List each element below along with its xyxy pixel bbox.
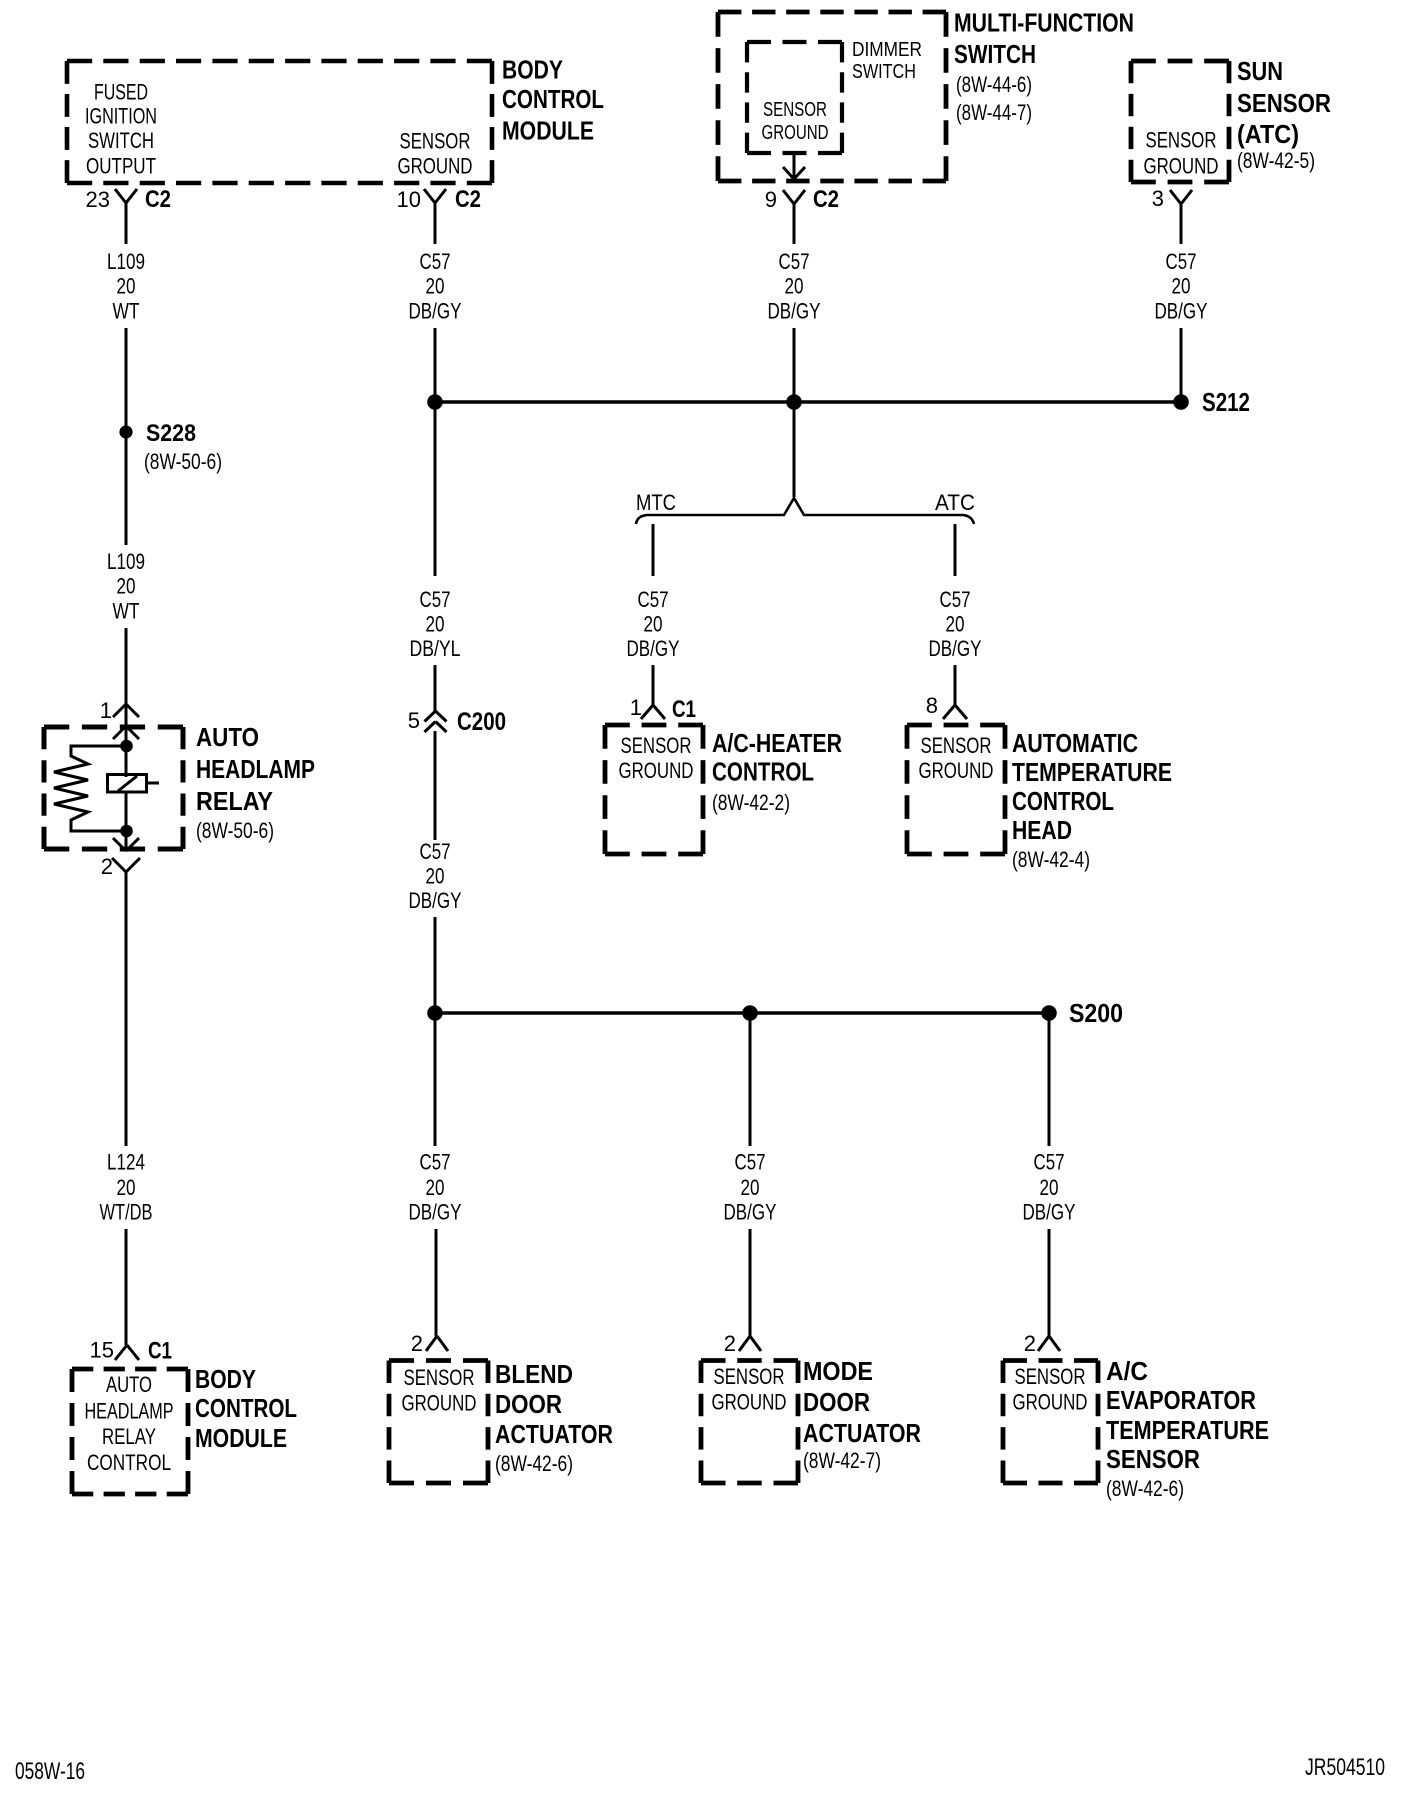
svg-text:TEMPERATURE: TEMPERATURE — [1012, 757, 1172, 787]
svg-text:CONTROL: CONTROL — [502, 84, 604, 114]
in-line connector C200 pin 5 — [408, 708, 506, 736]
svg-text:(8W-42-6): (8W-42-6) — [1106, 1476, 1184, 1501]
svg-text:DB/GY: DB/GY — [1155, 299, 1208, 324]
wire C57 segment (label to S200 bus) — [434, 917, 437, 1013]
svg-text:MODE: MODE — [803, 1356, 873, 1386]
label BODY CONTROL MODULE (bottom) — [195, 1364, 297, 1453]
svg-text:15: 15 — [90, 1338, 114, 1363]
svg-text:SENSOR: SENSOR — [404, 1365, 475, 1390]
relay pin 1 connector — [100, 698, 139, 739]
svg-text:SWITCH: SWITCH — [954, 39, 1036, 69]
svg-text:MULTI-FUNCTION: MULTI-FUNCTION — [954, 8, 1134, 38]
svg-text:JR504510: JR504510 — [1305, 1754, 1385, 1781]
svg-text:20: 20 — [117, 574, 136, 599]
sheet number 058W-16 — [15, 1758, 85, 1785]
wire C57 segment (label to A/C-heater control) — [652, 665, 655, 705]
svg-text:1: 1 — [630, 695, 642, 720]
svg-text:BODY: BODY — [502, 55, 563, 85]
svg-text:8: 8 — [926, 693, 938, 718]
label SENSOR GROUND (mode door actuator) — [712, 1364, 787, 1415]
svg-text:AUTO: AUTO — [196, 722, 259, 752]
connector C1 pin 15 (BCM) — [90, 1338, 172, 1365]
dimmer switch inner dashed box — [747, 42, 842, 153]
wire label C57 20 DB/GY (evap) — [1023, 1150, 1076, 1225]
svg-text:SENSOR: SENSOR — [1015, 1364, 1086, 1389]
junction node S212-left — [427, 394, 443, 410]
wire L109 segment (C2 pin23 to label) — [125, 203, 128, 244]
label A/C-HEATER CONTROL — [712, 728, 842, 815]
svg-text:(8W-42-5): (8W-42-5) — [1237, 148, 1315, 173]
svg-text:20: 20 — [741, 1175, 760, 1200]
wire C57 segment (S200 to mode label) — [749, 1013, 752, 1146]
automatic temperature control head dashed box — [907, 725, 1005, 854]
wire label C57 20 DB/GY (MTC branch) — [627, 587, 680, 661]
svg-text:DB/GY: DB/GY — [409, 299, 462, 324]
svg-text:10: 10 — [397, 187, 421, 212]
junction node S200-mid — [742, 1005, 758, 1021]
svg-text:5: 5 — [408, 708, 420, 733]
wire C57 segment (brace ATC to label) — [954, 524, 957, 576]
svg-text:DB/GY: DB/GY — [929, 636, 982, 661]
label AUTO HEADLAMP RELAY — [196, 722, 315, 843]
connector pin 2 (blend door actuator) — [411, 1331, 448, 1356]
connector C2 pin 10 (BCM) — [397, 186, 481, 213]
arrow dimmer switch to pin (internal) — [783, 153, 805, 179]
svg-text:ACTUATOR: ACTUATOR — [495, 1419, 613, 1449]
svg-text:DB/GY: DB/GY — [724, 1200, 777, 1225]
label AUTOMATIC TEMPERATURE CONTROL HEAD — [1012, 728, 1172, 872]
wire label C57 20 DB/GY (blend) — [409, 1150, 462, 1225]
svg-text:DB/YL: DB/YL — [410, 636, 461, 661]
label DIMMER SWITCH — [852, 39, 922, 83]
connector C2 pin 9 (multi-function switch) — [765, 186, 839, 213]
wire C57 segment (brace MTC to label) — [652, 524, 655, 576]
svg-text:C57: C57 — [940, 587, 971, 612]
svg-text:GROUND: GROUND — [619, 758, 694, 783]
svg-text:SENSOR: SENSOR — [1106, 1444, 1200, 1474]
wire label C57 20 DB/GY (col3) — [768, 249, 821, 324]
svg-text:C57: C57 — [1034, 1150, 1065, 1175]
wire relay internal (pin1 to coil) — [125, 704, 128, 777]
connector pin 8 (ATC head) — [926, 693, 967, 719]
svg-text:CONTROL: CONTROL — [712, 757, 814, 787]
svg-text:DB/GY: DB/GY — [1023, 1200, 1076, 1225]
svg-text:L109: L109 — [107, 549, 145, 574]
auto headlamp relay dashed box K-AHR — [44, 727, 183, 849]
svg-text:C2: C2 — [813, 186, 839, 213]
wire L109 segment (S228 to label) — [125, 432, 128, 545]
svg-text:3: 3 — [1152, 186, 1164, 211]
svg-text:DOOR: DOOR — [803, 1387, 870, 1417]
wire L124 segment (relay pin2 to label) — [125, 872, 128, 1146]
svg-text:DB/GY: DB/GY — [627, 636, 680, 661]
wire label L124 20 WT/DB — [100, 1150, 153, 1225]
label SENSOR GROUND (ATC head) — [919, 733, 994, 783]
wire C57 segment (label to blend actuator) — [435, 1229, 438, 1336]
svg-text:2: 2 — [101, 854, 113, 879]
svg-text:CONTROL: CONTROL — [87, 1450, 171, 1475]
svg-text:C57: C57 — [420, 1150, 451, 1175]
wire C57 segment (C2 pin10 to label) — [434, 203, 437, 244]
svg-text:C57: C57 — [1166, 249, 1197, 274]
wire label C57 20 DB/YL — [410, 587, 461, 661]
svg-text:20: 20 — [117, 274, 136, 299]
svg-text:23: 23 — [86, 187, 110, 212]
blend door actuator dashed box — [389, 1361, 488, 1484]
svg-text:MODULE: MODULE — [195, 1423, 287, 1453]
svg-text:ATC: ATC — [935, 490, 975, 515]
sun sensor dashed box — [1131, 61, 1229, 182]
resistor (relay coil suppression) — [54, 746, 126, 831]
svg-text:SENSOR: SENSOR — [714, 1364, 785, 1389]
label ATC — [935, 490, 975, 515]
connector pin 3 (sun sensor) — [1152, 186, 1192, 211]
label BLEND DOOR ACTUATOR — [495, 1359, 613, 1476]
a/c-heater control dashed box — [605, 725, 703, 854]
svg-text:WT: WT — [113, 599, 140, 624]
svg-text:TEMPERATURE: TEMPERATURE — [1106, 1415, 1269, 1445]
svg-text:1: 1 — [100, 698, 112, 723]
svg-text:FUSED: FUSED — [94, 80, 148, 105]
svg-text:L109: L109 — [107, 249, 145, 274]
label SENSOR GROUND (a/c-heater control) — [619, 733, 694, 783]
label BODY CONTROL MODULE (top) — [502, 55, 604, 146]
brace MTC/ATC selector — [636, 498, 974, 524]
label FUSED IGNITION SWITCH OUTPUT (BCM pin function) — [85, 80, 157, 179]
svg-text:C1: C1 — [672, 696, 696, 723]
svg-text:(8W-50-6): (8W-50-6) — [144, 449, 222, 474]
multi-function switch outer dashed box — [718, 12, 946, 181]
label SENSOR GROUND (evap sensor) — [1013, 1364, 1088, 1415]
svg-text:S212: S212 — [1202, 387, 1250, 417]
svg-text:(8W-42-2): (8W-42-2) — [712, 790, 790, 815]
svg-text:MODULE: MODULE — [502, 116, 594, 146]
wire C57 segment (label to S212 bus) — [793, 328, 796, 402]
svg-text:GROUND: GROUND — [712, 1390, 787, 1415]
svg-text:WT/DB: WT/DB — [100, 1200, 153, 1225]
splice bus S200 — [435, 1011, 1049, 1014]
svg-text:HEADLAMP: HEADLAMP — [196, 754, 315, 784]
mode door actuator dashed box — [701, 1361, 798, 1484]
wire C57 segment (sun sensor to label) — [1180, 204, 1183, 244]
svg-text:DB/GY: DB/GY — [768, 299, 821, 324]
svg-text:C57: C57 — [420, 249, 451, 274]
label MULTI-FUNCTION SWITCH — [954, 8, 1134, 126]
svg-text:GROUND: GROUND — [762, 122, 829, 144]
svg-text:GROUND: GROUND — [398, 153, 473, 178]
svg-text:SWITCH: SWITCH — [88, 128, 154, 153]
svg-text:20: 20 — [946, 612, 965, 637]
svg-text:GROUND: GROUND — [1013, 1390, 1088, 1415]
svg-text:2: 2 — [724, 1331, 736, 1356]
label SENSOR GROUND (sun sensor) — [1144, 128, 1219, 179]
svg-text:2: 2 — [1024, 1331, 1036, 1356]
drawing number JR504510 — [1305, 1754, 1385, 1781]
svg-text:20: 20 — [117, 1175, 136, 1200]
svg-text:SENSOR: SENSOR — [921, 733, 992, 758]
wire label C57 20 DB/GY (col2 upper) — [409, 249, 462, 324]
wire L109 segment (label to relay pin 1) — [125, 628, 128, 704]
svg-text:20: 20 — [785, 274, 804, 299]
svg-text:SENSOR: SENSOR — [763, 99, 827, 121]
svg-text:GROUND: GROUND — [1144, 154, 1219, 179]
connector C1 pin 1 (A/C-heater control) — [630, 695, 696, 723]
svg-text:(8W-50-6): (8W-50-6) — [196, 818, 274, 843]
svg-text:GROUND: GROUND — [919, 758, 994, 783]
relay pin 2 connector — [101, 838, 140, 879]
svg-text:MTC: MTC — [636, 490, 676, 515]
svg-text:SWITCH: SWITCH — [852, 61, 916, 83]
svg-text:SENSOR: SENSOR — [1146, 128, 1217, 153]
wire label C57 20 DB/GY (col2 mid) — [409, 839, 462, 913]
wire label C57 20 DB/GY (mode) — [724, 1150, 777, 1225]
label MTC — [636, 490, 676, 515]
junction node S212-mid — [786, 394, 802, 410]
wire C57 segment (label to ATC head) — [954, 665, 957, 705]
svg-text:WT: WT — [113, 299, 140, 324]
svg-text:C57: C57 — [420, 587, 451, 612]
wire L124 segment (label to C1 pin15) — [125, 1229, 128, 1345]
svg-text:C57: C57 — [735, 1150, 766, 1175]
svg-text:20: 20 — [1172, 274, 1191, 299]
svg-text:C57: C57 — [779, 249, 810, 274]
svg-text:A/C: A/C — [1106, 1356, 1148, 1386]
svg-text:(ATC): (ATC) — [1237, 119, 1299, 149]
svg-text:BLEND: BLEND — [495, 1359, 573, 1389]
svg-text:(8W-42-6): (8W-42-6) — [495, 1451, 573, 1476]
wire label L109 20 WT (lower) — [107, 549, 145, 624]
svg-text:SUN: SUN — [1237, 56, 1283, 86]
svg-text:BODY: BODY — [195, 1364, 256, 1394]
svg-text:CONTROL: CONTROL — [1012, 786, 1114, 816]
svg-text:IGNITION: IGNITION — [85, 104, 157, 129]
wire C57 segment (S212 to DB/YL label) — [434, 402, 437, 576]
wire label L109 20 WT (upper) — [107, 249, 145, 324]
svg-text:C2: C2 — [455, 186, 481, 213]
connector pin 2 (a/c evaporator temperature sensor) — [1024, 1331, 1060, 1356]
svg-text:SENSOR: SENSOR — [400, 128, 471, 153]
svg-text:RELAY: RELAY — [196, 786, 273, 816]
splice S200 — [1041, 998, 1123, 1028]
svg-text:20: 20 — [644, 612, 663, 637]
svg-text:20: 20 — [426, 274, 445, 299]
wire segment (S212 to MTC/ATC brace) — [793, 402, 796, 497]
junction node (relay bottom) — [120, 825, 133, 838]
svg-text:(8W-42-4): (8W-42-4) — [1012, 847, 1090, 872]
svg-text:AUTO: AUTO — [106, 1372, 152, 1397]
svg-text:S200: S200 — [1069, 998, 1123, 1028]
svg-text:2: 2 — [411, 1331, 423, 1356]
wire C57 segment (label to S212) — [1180, 328, 1183, 402]
connector C2 pin 23 (BCM) — [86, 186, 171, 213]
svg-text:(8W-44-7): (8W-44-7) — [956, 100, 1032, 125]
svg-text:C57: C57 — [638, 587, 669, 612]
svg-text:AUTOMATIC: AUTOMATIC — [1012, 728, 1138, 758]
body control module (bottom) dashed box — [72, 1369, 188, 1494]
wire L109 segment (label to splice S228) — [125, 328, 128, 432]
label SENSOR GROUND (blend door actuator) — [402, 1365, 477, 1416]
relay coil K1 — [108, 775, 160, 793]
svg-text:C57: C57 — [420, 839, 451, 864]
a/c evaporator temperature sensor dashed box — [1003, 1361, 1098, 1484]
svg-text:20: 20 — [1040, 1175, 1059, 1200]
svg-text:(8W-44-6): (8W-44-6) — [956, 72, 1032, 97]
label MODE DOOR ACTUATOR — [803, 1356, 921, 1473]
svg-text:ACTUATOR: ACTUATOR — [803, 1418, 921, 1448]
splice S228 — [119, 420, 222, 474]
wire C57 segment (C200 to label) — [434, 731, 437, 840]
wire C57 segment (label to splice S212 bus) — [434, 328, 437, 402]
label SENSOR GROUND (BCM pin function) — [398, 128, 473, 178]
wire C57 segment (MFS pin9 to label) — [793, 204, 796, 244]
svg-text:058W-16: 058W-16 — [15, 1758, 85, 1785]
wire label C57 20 DB/GY (ATC branch) — [929, 587, 982, 661]
svg-text:SENSOR: SENSOR — [621, 733, 692, 758]
connector pin 2 (mode door actuator) — [724, 1331, 761, 1356]
svg-text:CONTROL: CONTROL — [195, 1393, 297, 1423]
wire C57 segment (label to evap sensor) — [1048, 1229, 1051, 1336]
svg-text:L124: L124 — [107, 1150, 145, 1175]
svg-text:DB/GY: DB/GY — [409, 1200, 462, 1225]
svg-text:OUTPUT: OUTPUT — [86, 154, 156, 179]
body control module (top) dashed box U-BCM — [67, 61, 492, 183]
wire C57 segment (S200 to blend label) — [434, 1013, 437, 1146]
svg-text:HEADLAMP: HEADLAMP — [85, 1399, 174, 1424]
svg-text:DOOR: DOOR — [495, 1389, 562, 1419]
svg-text:DB/GY: DB/GY — [409, 888, 462, 913]
svg-text:RELAY: RELAY — [102, 1424, 156, 1449]
svg-text:20: 20 — [426, 612, 445, 637]
svg-text:C2: C2 — [145, 186, 171, 213]
svg-text:S228: S228 — [146, 420, 196, 447]
wire label C57 20 DB/GY (col6) — [1155, 249, 1208, 324]
svg-text:(8W-42-7): (8W-42-7) — [803, 1448, 881, 1473]
label AUTO HEADLAMP RELAY CONTROL (BCM pin function) — [85, 1372, 174, 1475]
svg-text:DIMMER: DIMMER — [852, 39, 922, 61]
wire C57 segment (label to C200) — [434, 665, 437, 711]
splice bus S212 — [435, 400, 1181, 403]
svg-text:C1: C1 — [148, 1338, 172, 1365]
svg-text:9: 9 — [765, 187, 777, 212]
junction node S200-left — [427, 1005, 443, 1021]
svg-text:C200: C200 — [457, 708, 506, 736]
wire C57 segment (label to mode actuator) — [749, 1229, 752, 1336]
splice S212 — [1173, 387, 1250, 417]
svg-text:SENSOR: SENSOR — [1237, 88, 1331, 118]
svg-text:20: 20 — [426, 1175, 445, 1200]
svg-text:20: 20 — [426, 864, 445, 889]
label SUN SENSOR (ATC) — [1237, 56, 1331, 173]
label SENSOR GROUND (dimmer switch) — [762, 99, 829, 144]
svg-text:A/C-HEATER: A/C-HEATER — [712, 728, 842, 758]
wire relay internal (coil to pin2) — [125, 792, 128, 851]
label A/C EVAPORATOR TEMPERATURE SENSOR — [1106, 1356, 1269, 1501]
junction node (relay top) — [120, 740, 133, 753]
svg-text:EVAPORATOR: EVAPORATOR — [1106, 1385, 1256, 1415]
wire C57 segment (S200 to evap label) — [1048, 1013, 1051, 1146]
svg-text:GROUND: GROUND — [402, 1391, 477, 1416]
svg-text:HEAD: HEAD — [1012, 815, 1072, 845]
